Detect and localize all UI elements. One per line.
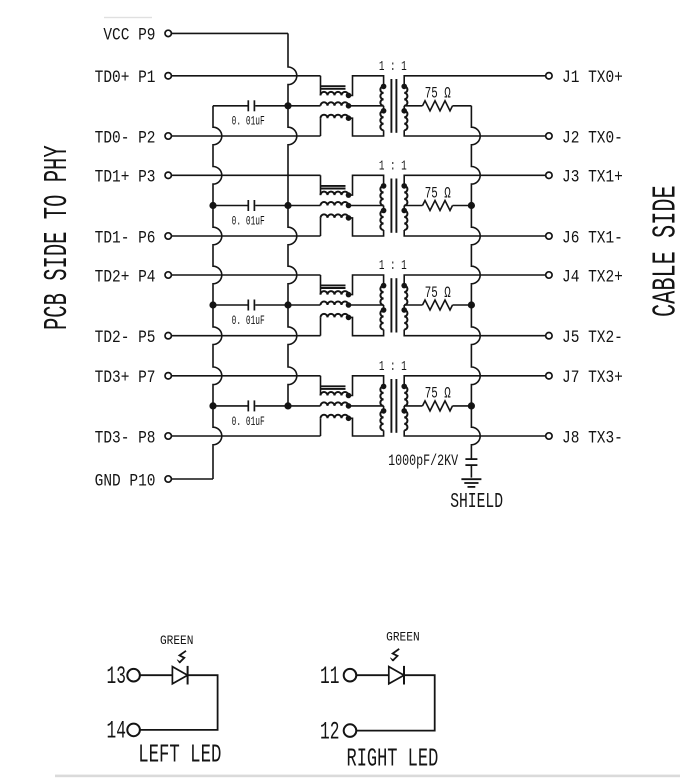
svg-text:RIGHT LED: RIGHT LED [347,744,439,773]
transformer T1 primary phase dots [381,84,387,90]
svg-text:J3 TX1+: J3 TX1+ [562,167,623,187]
wire center-tap rail ch1 [288,205,321,207]
svg-text:13: 13 [107,664,126,691]
wire secondary top to J ch1 [404,175,546,186]
wire choke to transformer top ch0 [349,76,384,96]
capacitor C2 0.01uF [213,205,248,207]
wire secondary bottom to J ch1 [404,230,546,236]
wire TD0- rail [171,135,320,137]
wire LEFT LED cathode to pin [140,675,218,730]
wire TD3- rail [171,435,320,437]
svg-text:SHIELD: SHIELD [450,489,503,514]
pin terminal J7 [546,373,552,379]
svg-text:J2 TX0-: J2 TX0- [562,128,623,148]
wire RIGHT LED anode [356,674,389,676]
LED LEFT LED diode [172,667,187,684]
svg-text:TD2- P5: TD2- P5 [95,328,156,348]
choke L1 core [321,85,346,87]
transformer T2 primary phase dots [381,183,387,189]
capacitor C3 0.01uF [213,304,248,306]
choke L2 core [321,185,346,187]
wire secondary top to J ch0 [404,76,546,87]
pin terminal P9 [165,30,171,36]
svg-text:75 Ω: 75 Ω [425,86,451,103]
transformer T4 primary phase dots [381,384,387,390]
wire TD2- rail [171,335,320,337]
choke L3 phase dots [346,292,352,298]
junction VCC bus [284,102,291,109]
choke L1 phase dots [346,93,352,99]
pin terminal P10 [165,476,171,482]
choke L3 winding bottom [321,314,349,318]
wire center-tap to primary ch1 [349,205,384,207]
svg-text:1 : 1: 1 : 1 [379,158,407,174]
wire VCC bus vertical [288,33,297,406]
choke L2 phase dots [346,192,352,198]
capacitor C4 0.01uF [213,405,248,407]
pin 11 terminal [344,669,357,682]
transformer T1 core [390,79,392,133]
transformer T1 secondary phase dots [401,84,407,90]
svg-text:TD0+ P1: TD0+ P1 [95,68,156,88]
pin terminal P4 [165,272,171,278]
pin terminal P2 [165,133,171,139]
choke L2 winding bottom [321,214,349,217]
pin terminal P6 [165,233,171,239]
svg-text:0. 01uF: 0. 01uF [232,215,265,229]
wire center-tap to primary ch3 [349,405,384,407]
pin terminal J6 [546,233,552,239]
wire secondary bottom to J ch3 [404,430,546,436]
transformer T3 secondary winding [404,286,407,305]
resistor R2 75 ohm [404,205,422,207]
wire choke to transformer bottom ch1 [349,218,384,236]
pin terminal J2 [546,133,552,139]
capacitor C5 1000pF/2KV [465,458,477,460]
choke L2 winding mid [321,202,349,206]
resistor R3 75 ohm [404,304,422,306]
choke L4 phase dots [346,393,352,399]
wire secondary bottom to J ch0 [404,130,546,136]
svg-text:J5 TX2-: J5 TX2- [562,328,623,348]
pin terminal P7 [165,373,171,379]
svg-text:75 Ω: 75 Ω [425,285,451,302]
svg-text:1 : 1: 1 : 1 [379,358,407,374]
choke L1 winding bottom [321,115,349,118]
wire VCC P9 to bus [171,32,288,34]
pin terminal J3 [546,172,552,178]
wire RIGHT LED cathode to pin [356,675,434,730]
choke L1 winding top [321,92,349,95]
wire resistor to termination bus ch3 [453,405,472,407]
svg-text:75 Ω: 75 Ω [425,386,451,403]
choke L3 core [321,284,346,286]
wire TD0+ rail [171,75,320,77]
wire LEFT LED anode [140,674,173,676]
wire choke to transformer top ch1 [349,175,384,195]
transformer T1 primary winding [380,86,383,105]
junction VCC bus [284,301,291,308]
pin terminal J8 [546,433,552,439]
transformer T4 primary winding [380,386,383,406]
svg-text:J6 TX1-: J6 TX1- [562,228,623,248]
pin 12 terminal [344,724,357,737]
svg-text:GREEN: GREEN [386,630,420,645]
pin terminal P8 [165,433,171,439]
svg-text:TD0- P2: TD0- P2 [95,128,156,148]
transformer T1 secondary winding [404,86,407,105]
choke L1 winding mid [321,102,349,106]
wire GND bus vertical [213,106,222,479]
svg-text:CABLE SIDE: CABLE SIDE [647,185,680,317]
svg-text:0. 01uF: 0. 01uF [232,415,265,429]
wire center-tap rail ch3 [288,405,321,407]
resistor R1 75 ohm [404,105,422,107]
wire resistor to termination bus ch2 [453,304,472,306]
transformer T4 secondary winding [404,386,407,406]
svg-text:TD1+ P3: TD1+ P3 [95,167,156,187]
junction termination bus [468,402,475,409]
transformer T4 core [390,379,392,433]
wire choke to transformer bottom ch2 [349,317,384,335]
svg-text:11: 11 [320,664,339,691]
wire choke to transformer top ch2 [349,275,384,295]
junction GND bus [209,301,216,308]
svg-text:1 : 1: 1 : 1 [379,58,407,74]
wire center-tap to primary ch2 [349,304,384,306]
junction GND bus [209,402,216,409]
choke L4 winding bottom [321,415,349,418]
svg-text:J8 TX3-: J8 TX3- [562,428,623,448]
svg-text:1000pF/2KV: 1000pF/2KV [388,454,459,471]
pin terminal J4 [546,272,552,278]
transformer T3 primary winding [380,286,383,305]
wire TD3+ rail [171,375,320,377]
pin terminal P5 [165,333,171,339]
transformer T2 core [390,179,392,233]
wire resistor to termination bus ch1 [453,205,472,207]
svg-text:J4 TX2+: J4 TX2+ [562,267,623,287]
wire GND P10 to bus [171,478,213,480]
LED RIGHT LED emission arrow [392,649,399,661]
choke L3 winding mid [321,302,349,306]
LED LEFT LED cathode bar [187,666,189,685]
svg-text:PCB SIDE TO PHY: PCB SIDE TO PHY [39,145,76,330]
pin 13 terminal [127,669,140,682]
transformer T2 primary winding [380,186,383,206]
choke L3 winding top [321,291,349,295]
svg-text:12: 12 [320,719,339,746]
svg-text:0. 01uF: 0. 01uF [232,314,265,328]
svg-text:GND P10: GND P10 [95,471,156,491]
svg-text:LEFT LED: LEFT LED [138,740,221,769]
svg-text:TD2+ P4: TD2+ P4 [95,267,156,287]
svg-text:TD3- P8: TD3- P8 [95,428,156,448]
svg-text:14: 14 [107,719,126,746]
transformer T3 secondary phase dots [401,283,407,289]
pin terminal P3 [165,172,171,178]
wire resistor to termination bus ch0 [453,105,472,107]
wire center-tap rail ch2 [288,304,321,306]
svg-text:J1 TX0+: J1 TX0+ [562,68,623,88]
pin terminal J1 [546,73,552,79]
wire TD1- rail [171,235,320,237]
wire center-tap rail ch0 [288,105,321,107]
wire secondary top to J ch3 [404,376,546,387]
svg-text:0. 01uF: 0. 01uF [232,115,265,129]
wire choke to transformer bottom ch3 [349,418,384,436]
capacitor C1 0.01uF [213,105,248,107]
transformer T4 secondary phase dots [401,384,407,390]
svg-text:GREEN: GREEN [160,634,194,649]
junction VCC bus [284,202,291,209]
page edge shading bottom [55,775,680,778]
wire termination bus vertical [471,106,480,459]
page edge shading top left [104,17,152,18]
pin terminal P1 [165,73,171,79]
LED RIGHT LED diode [389,667,404,684]
wire TD2+ rail [171,274,320,276]
resistor R4 75 ohm [404,405,422,407]
svg-text:TD1- P6: TD1- P6 [95,228,156,248]
wire secondary top to J ch2 [404,275,546,286]
svg-text:TD3+ P7: TD3+ P7 [95,368,156,388]
pin 14 terminal [127,724,140,737]
junction termination bus [468,202,475,209]
transformer T3 primary phase dots [381,283,387,289]
junction GND bus [209,202,216,209]
svg-text:J7 TX3+: J7 TX3+ [562,368,623,388]
transformer T2 secondary winding [404,186,407,206]
choke L4 winding top [321,392,349,395]
choke L2 winding top [321,192,349,195]
wire TD1+ rail [171,174,320,176]
ground SHIELD symbol [461,478,481,480]
choke L4 winding mid [321,402,349,405]
wire choke to transformer top ch3 [349,376,384,396]
transformer T2 secondary phase dots [401,183,407,189]
transformer T3 core [390,278,392,332]
svg-text:75 Ω: 75 Ω [425,186,451,203]
LED RIGHT LED cathode bar [403,666,405,685]
wire center-tap to primary ch0 [349,105,384,107]
pin terminal J5 [546,333,552,339]
svg-text:1 : 1: 1 : 1 [379,258,407,274]
LED LEFT LED emission arrow [179,651,186,663]
junction termination bus [468,301,475,308]
choke L4 core [321,385,346,387]
svg-text:VCC P9: VCC P9 [103,25,155,45]
wire secondary bottom to J ch2 [404,330,546,336]
junction VCC bus [284,402,291,409]
wire choke to transformer bottom ch0 [349,118,384,136]
